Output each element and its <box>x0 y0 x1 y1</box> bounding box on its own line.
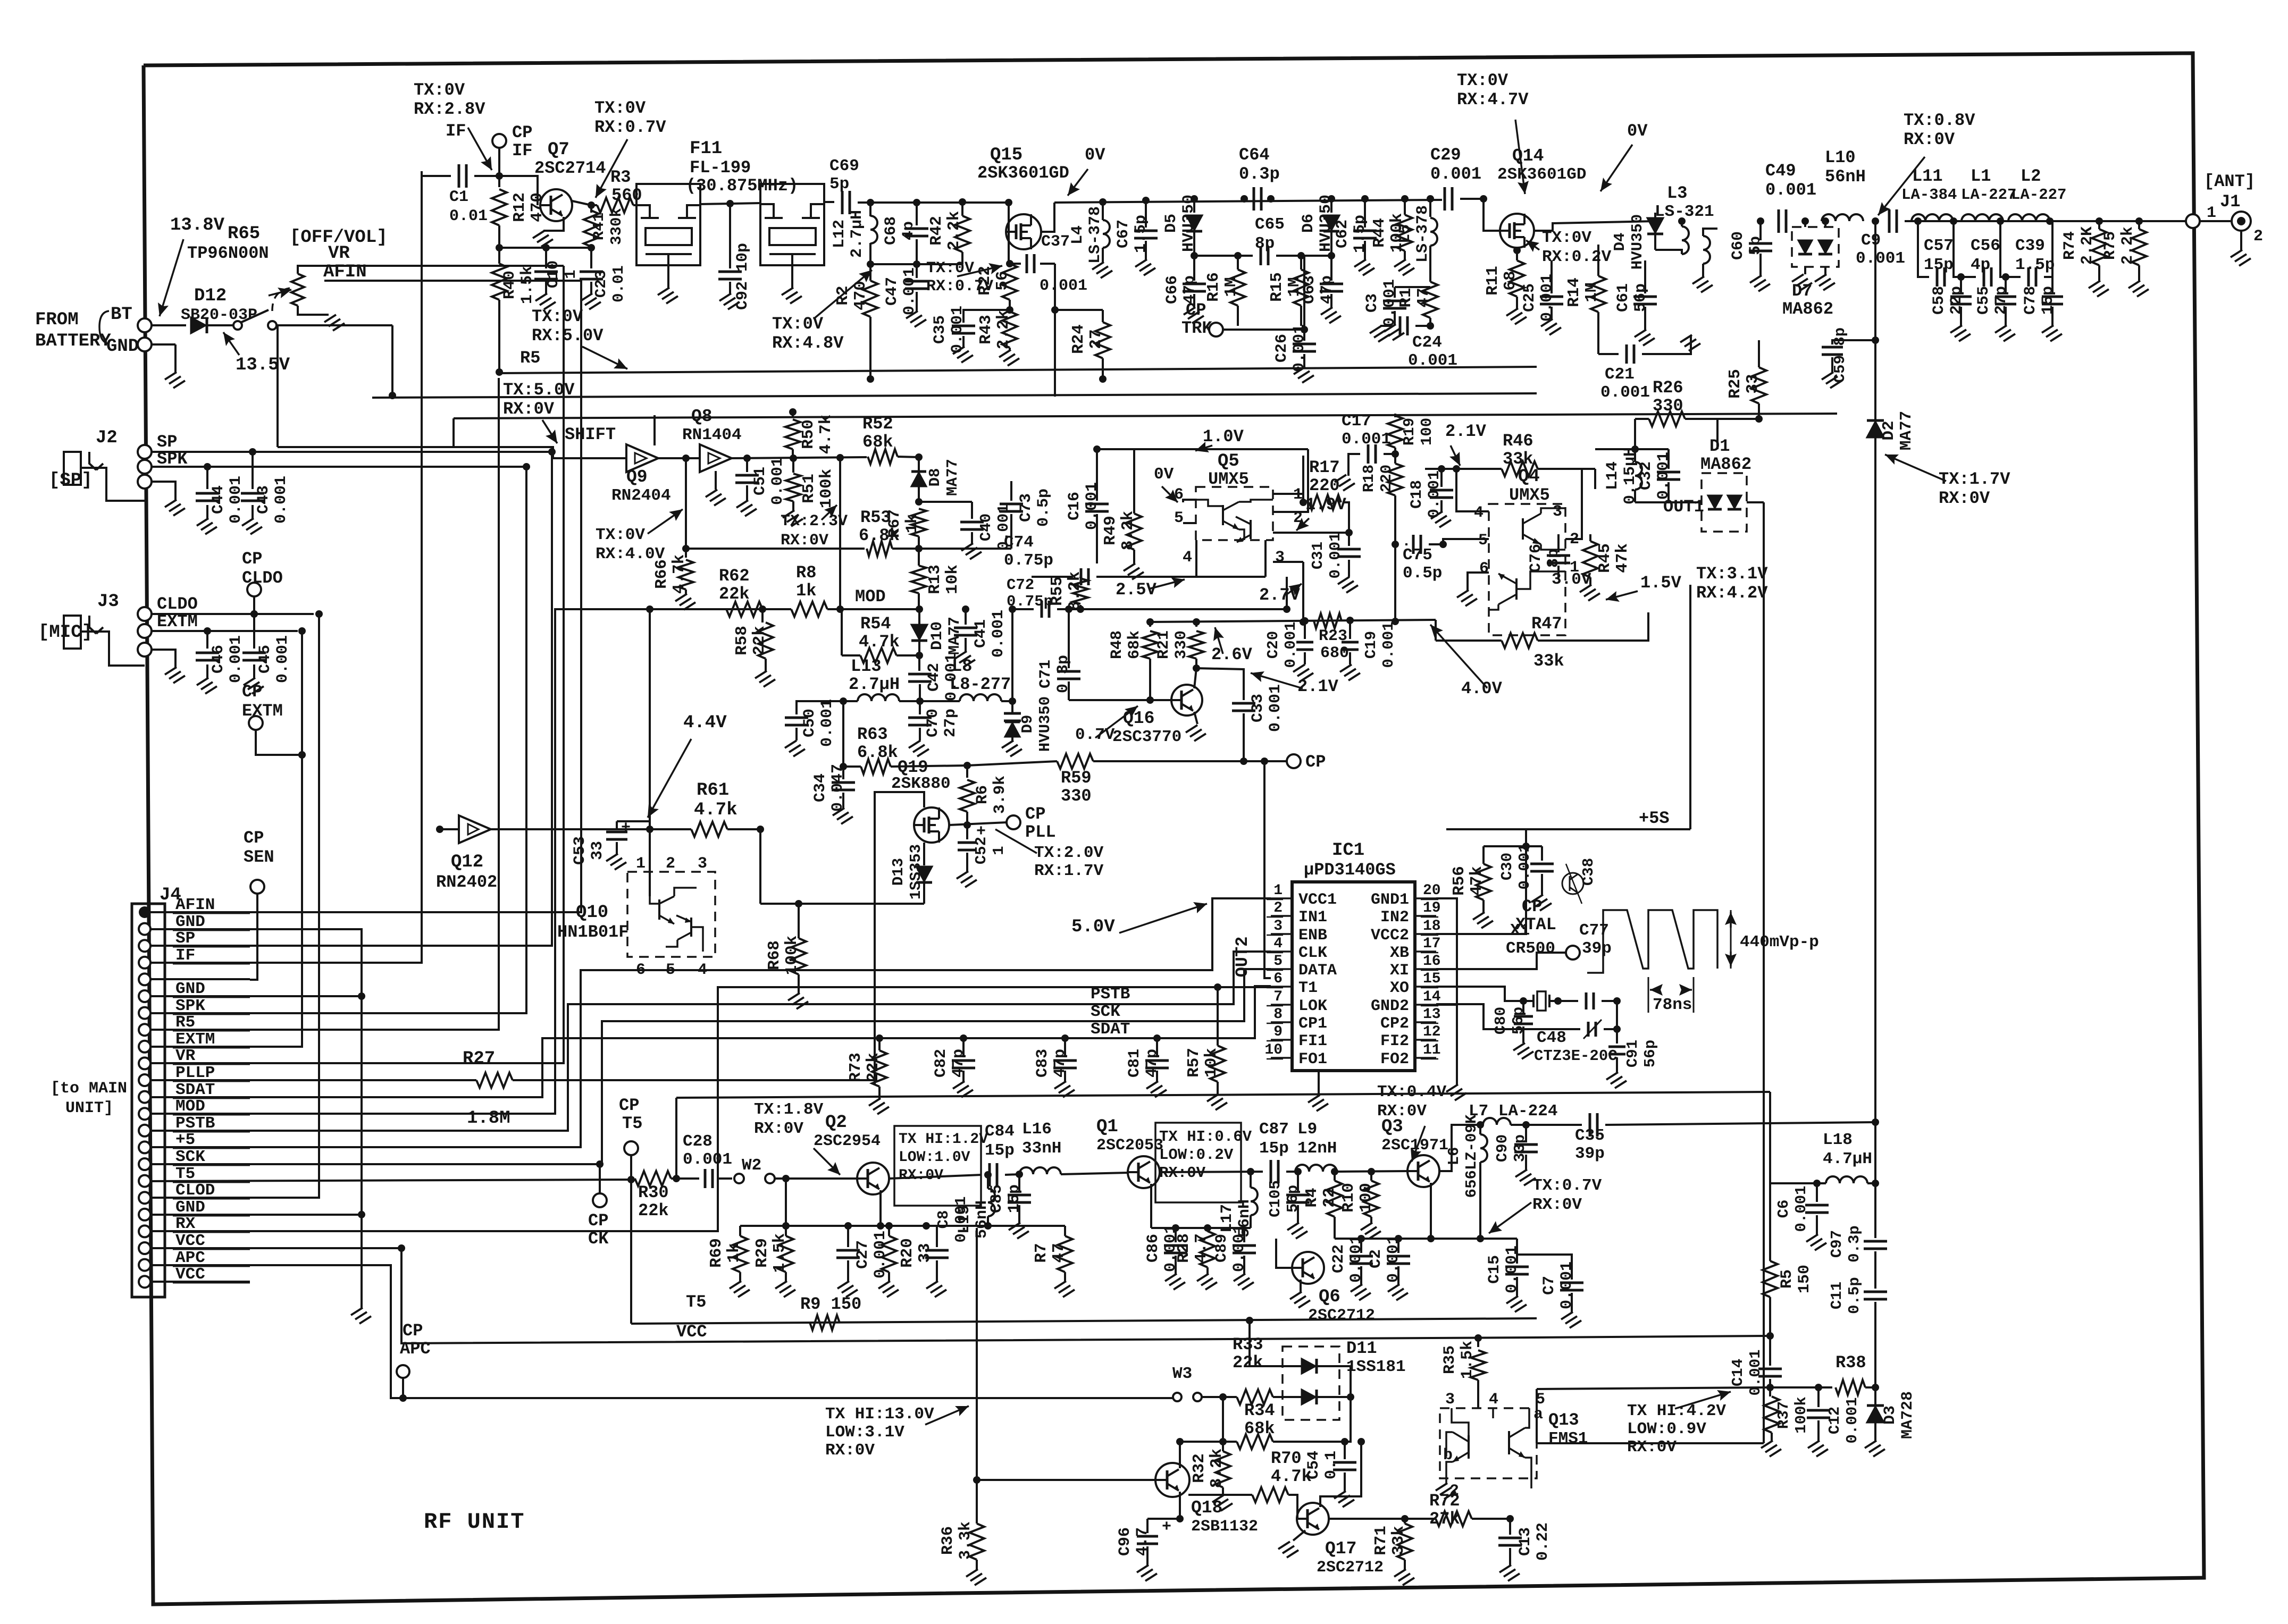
J4 pin GND <box>139 923 150 935</box>
capacitor C89 0.001 <box>1243 1228 1245 1242</box>
wire down from C9 node <box>1874 221 1876 429</box>
svg-text:W2: W2 <box>742 1156 761 1175</box>
wire q13 right <box>1537 1442 1764 1444</box>
svg-text:C40: C40 <box>977 514 995 541</box>
capacitor C9 0.001 <box>1872 217 1879 225</box>
svg-text:2.2k: 2.2k <box>994 310 1013 349</box>
svg-text:4: 4 <box>1474 504 1484 522</box>
svg-text:Q12: Q12 <box>451 852 483 872</box>
svg-text:Q4: Q4 <box>1518 467 1540 487</box>
svg-text:R55: R55 <box>1048 576 1067 606</box>
svg-text:R13: R13 <box>926 565 944 594</box>
svg-text:RX:0V: RX:0V <box>754 1120 803 1138</box>
IC1 pin 13 CP2 <box>1415 1021 1436 1023</box>
svg-text:L2: L2 <box>2021 166 2041 186</box>
svg-text:J1: J1 <box>2220 192 2240 212</box>
resistor R25 33 <box>1758 340 1760 367</box>
capacitor C31 0.001 <box>1337 548 1361 551</box>
svg-text:Q13: Q13 <box>1548 1410 1579 1430</box>
svg-text:D5: D5 <box>1162 214 1180 233</box>
svg-text:PSTB: PSTB <box>1091 985 1130 1004</box>
svg-text:FO1: FO1 <box>1298 1050 1327 1068</box>
svg-text:0.001: 0.001 <box>1380 621 1397 668</box>
svg-text:C86: C86 <box>1144 1234 1162 1263</box>
svg-text:W3: W3 <box>1172 1365 1192 1383</box>
svg-text:2: 2 <box>2253 228 2263 246</box>
svg-text:RN2402: RN2402 <box>436 872 497 892</box>
svg-text:22p: 22p <box>1948 286 1966 315</box>
svg-text:56p: 56p <box>1632 283 1650 312</box>
svg-text:330: 330 <box>1172 630 1191 659</box>
svg-text:1: 1 <box>562 270 580 279</box>
svg-text:CP: CP <box>1186 300 1206 320</box>
svg-text:68: 68 <box>1501 271 1520 290</box>
capacitor C82 47p <box>960 1034 967 1042</box>
capacitor C20 0.001 <box>1304 621 1306 639</box>
svg-text:C81: C81 <box>1126 1049 1144 1078</box>
svg-text:C24: C24 <box>1412 333 1442 352</box>
svg-text:2SK880: 2SK880 <box>891 775 951 793</box>
svg-text:FO2: FO2 <box>1380 1050 1409 1068</box>
IC1 pin 11 FO2 <box>1415 1057 1436 1059</box>
svg-text:100k: 100k <box>783 936 801 975</box>
capacitor C2 0.001 <box>1397 1239 1399 1253</box>
svg-text:8.2k: 8.2k <box>1066 571 1084 611</box>
svg-text:R61: R61 <box>697 780 729 801</box>
svg-text:2SC2954: 2SC2954 <box>814 1132 881 1150</box>
ground at GND terminal <box>152 343 175 346</box>
svg-text:LS-321: LS-321 <box>1655 203 1714 221</box>
wire row to filter2 <box>633 204 636 206</box>
svg-text:C60: C60 <box>1729 231 1747 260</box>
svg-text:C53: C53 <box>571 836 589 865</box>
svg-text:MA728: MA728 <box>1899 1391 1917 1439</box>
capacitor C51 0.001 <box>746 458 748 472</box>
svg-text:2SC2712: 2SC2712 <box>1317 1559 1384 1577</box>
svg-text:R5: R5 <box>520 348 540 368</box>
svg-text:R4: R4 <box>1303 1188 1321 1207</box>
buffer Q12 RN2402 <box>459 815 491 843</box>
capacitor C76 8p <box>1557 534 1560 552</box>
svg-text:R46: R46 <box>1503 431 1533 451</box>
waveform 440mVp-p <box>1587 910 1717 973</box>
svg-text:TX:0V: TX:0V <box>594 98 646 118</box>
transistor pair Q10 HN1B01F <box>627 872 715 957</box>
IC1 ground stubs <box>1436 898 1457 1084</box>
svg-text:T5: T5 <box>622 1114 642 1133</box>
svg-text:C30: C30 <box>1498 853 1516 880</box>
svg-text:RX:4.7V: RX:4.7V <box>1457 90 1529 110</box>
wire D9 riser <box>1011 609 1013 701</box>
svg-text:0.001: 0.001 <box>227 635 245 683</box>
svg-text:XO: XO <box>1390 979 1409 997</box>
IC1 pin 16 XI <box>1415 968 1436 970</box>
IC1 pin 7 LOK <box>1271 1004 1292 1006</box>
svg-text:RX:0V: RX:0V <box>503 399 555 419</box>
svg-text:C17: C17 <box>1342 412 1371 431</box>
diode D8 MA77 <box>911 473 926 486</box>
wire AFIN riser <box>150 281 581 912</box>
IC1 pin 14 GND2 <box>1415 1004 1436 1006</box>
svg-text:OUT2: OUT2 <box>1233 937 1252 978</box>
svg-text:CP: CP <box>403 1321 423 1341</box>
svg-text:6: 6 <box>636 961 646 979</box>
resistor R28 4.7 <box>1206 1228 1209 1231</box>
svg-text:C71: C71 <box>1037 660 1055 688</box>
label 0.7V <box>1095 706 1138 738</box>
svg-text:R51: R51 <box>800 474 818 503</box>
Q4 transistor a <box>1522 518 1524 540</box>
transistor C38 mark <box>1562 873 1583 894</box>
capacitor C16 0.001 <box>1096 449 1098 501</box>
capacitor C43 0.001 <box>249 448 256 456</box>
svg-text:R71: R71 <box>1372 1526 1390 1555</box>
svg-text:Q16: Q16 <box>1123 709 1154 728</box>
capacitor C97 0.3p <box>1874 1183 1876 1238</box>
svg-text:CP1: CP1 <box>1298 1015 1327 1033</box>
svg-text:33p: 33p <box>1511 1134 1529 1162</box>
svg-text:22k: 22k <box>638 1201 669 1221</box>
wire EXTM <box>152 630 298 632</box>
resistor R40 1.5k <box>498 248 500 264</box>
svg-text:0.001: 0.001 <box>1503 1246 1521 1293</box>
inductor L4 LS-378a <box>1099 198 1107 206</box>
svg-text:CP: CP <box>1305 752 1326 772</box>
svg-text:0.3p: 0.3p <box>1054 655 1072 693</box>
capacitor C90 33p <box>1525 1125 1527 1141</box>
resistor R57 10k <box>1214 983 1221 991</box>
resistor R74 2.2K <box>2096 217 2103 225</box>
svg-text:0.1: 0.1 <box>1322 1451 1340 1479</box>
svg-text:2.2k: 2.2k <box>945 211 963 250</box>
terminal CP XTAL wire <box>1436 953 1566 969</box>
svg-text:R68: R68 <box>765 940 784 970</box>
wire MOD riser <box>150 609 762 1114</box>
diode block D7 MA862 <box>1792 227 1839 267</box>
svg-text:L14: L14 <box>1604 461 1622 490</box>
wire CLDO <box>152 613 314 615</box>
svg-text:1.8M: 1.8M <box>467 1108 510 1129</box>
J4 pin APC <box>139 1259 150 1271</box>
svg-text:IC1: IC1 <box>1332 840 1364 861</box>
svg-text:R74: R74 <box>2061 231 2079 260</box>
svg-text:0.001: 0.001 <box>1538 274 1556 322</box>
svg-text:33nH: 33nH <box>1022 1139 1061 1158</box>
wire rail 2610 <box>1537 1387 1770 1389</box>
capacitor C21 0.001 <box>1598 353 1619 355</box>
svg-text:68k: 68k <box>862 432 893 452</box>
J4 pin MOD <box>139 1108 150 1120</box>
svg-text:R3: R3 <box>610 167 631 187</box>
capacitor C67 1.5p <box>1142 197 1150 204</box>
svg-text:1k: 1k <box>796 581 816 601</box>
svg-text:Q15: Q15 <box>990 145 1023 165</box>
svg-text:R19: R19 <box>1401 418 1418 445</box>
svg-text:6: 6 <box>1479 560 1489 578</box>
svg-text:C96: C96 <box>1116 1527 1134 1556</box>
svg-text:R40: R40 <box>501 271 519 299</box>
svg-text:C25: C25 <box>1521 283 1539 312</box>
svg-text:D13: D13 <box>890 858 907 886</box>
resistor R48 68k <box>1149 622 1151 627</box>
wire mod branch <box>841 609 843 655</box>
svg-text:0.001: 0.001 <box>1856 249 1905 268</box>
svg-text:C69: C69 <box>829 157 859 175</box>
svg-text:L8: L8 <box>952 657 972 676</box>
svg-text:R73: R73 <box>847 1053 865 1082</box>
sub rail q1 <box>1151 1227 1251 1229</box>
svg-text:2: 2 <box>1449 1482 1459 1500</box>
svg-text:R37: R37 <box>1775 1401 1792 1429</box>
svg-text:RX:0V: RX:0V <box>1627 1438 1677 1457</box>
svg-text:(30.875MHz): (30.875MHz) <box>686 176 798 196</box>
svg-text:656LZ-09K: 656LZ-09K <box>1463 1114 1480 1198</box>
svg-text:C85: C85 <box>988 1184 1006 1213</box>
svg-text:10k: 10k <box>1202 1048 1221 1078</box>
wire mixer out to Q4 <box>1302 562 1304 622</box>
svg-text:470: 470 <box>528 192 547 222</box>
svg-text:Q17: Q17 <box>1325 1539 1356 1559</box>
svg-text:0V: 0V <box>1627 121 1648 141</box>
svg-text:0.01: 0.01 <box>449 207 488 225</box>
capacitor C63 47p <box>1330 256 1332 281</box>
sub rail <box>870 263 962 265</box>
svg-text:4: 4 <box>1489 1391 1498 1409</box>
svg-text:2.2K: 2.2K <box>2079 226 2097 265</box>
varactor D9 HVU350 <box>1011 701 1013 713</box>
wire VR riser <box>150 266 564 1063</box>
svg-text:C21: C21 <box>1605 365 1635 384</box>
svg-text:Q7: Q7 <box>548 140 569 160</box>
resistor R13 10k <box>911 566 926 593</box>
wire VCC2 <box>1436 846 1526 934</box>
svg-text:D12: D12 <box>194 286 227 306</box>
capacitor C35 0.001 <box>963 310 1010 323</box>
svg-text:R54: R54 <box>860 614 891 634</box>
wire Q19 drain <box>875 792 924 1084</box>
svg-text:GND: GND <box>106 336 139 357</box>
svg-text:C19: C19 <box>1362 631 1380 659</box>
svg-text:R33: R33 <box>1233 1335 1263 1354</box>
svg-text:TX:0V: TX:0V <box>1542 229 1591 247</box>
svg-text:R42: R42 <box>927 216 946 246</box>
svg-text:0.01: 0.01 <box>610 265 627 302</box>
J4 pin +5 <box>139 1141 150 1153</box>
svg-text:0.15μH: 0.15μH <box>1621 447 1639 504</box>
svg-text:SEN: SEN <box>244 847 274 867</box>
svg-text:15p: 15p <box>1924 256 1954 274</box>
svg-text:1.0V: 1.0V <box>1203 427 1244 447</box>
IC1 pin 10 FO1 <box>1271 1057 1292 1059</box>
resistor R4 22 <box>1331 1168 1338 1175</box>
svg-text:TP96N00N: TP96N00N <box>187 243 269 263</box>
svg-text:J2: J2 <box>96 428 118 448</box>
svg-text:Q1: Q1 <box>1096 1117 1118 1137</box>
wire VCC riser <box>150 1247 401 1249</box>
svg-text:3.3k: 3.3k <box>957 1521 975 1560</box>
svg-text:47p: 47p <box>1181 275 1199 304</box>
svg-text:C66: C66 <box>1163 275 1181 304</box>
ground at J3 <box>152 650 175 667</box>
svg-text:0.001: 0.001 <box>952 1196 970 1242</box>
svg-text:CP: CP <box>242 682 262 702</box>
J4 pin IF <box>139 957 150 969</box>
IC1 pin 8 CP1 <box>1271 1021 1292 1023</box>
svg-text:L12: L12 <box>831 220 849 248</box>
mid box top <box>454 414 1837 418</box>
bias rail <box>499 247 591 249</box>
diode D13 1SS353 <box>916 866 932 881</box>
svg-text:R43: R43 <box>977 315 995 344</box>
svg-text:14: 14 <box>1423 989 1441 1005</box>
gnd Q8 <box>715 471 717 490</box>
svg-text:C61: C61 <box>1614 283 1632 312</box>
svg-text:HVU350: HVU350 <box>1629 214 1646 270</box>
J4 pin SDAT <box>139 1091 150 1103</box>
svg-text:56p: 56p <box>1284 1185 1302 1213</box>
svg-text:HVU350: HVU350 <box>1180 195 1198 252</box>
svg-text:R34: R34 <box>1244 1401 1275 1420</box>
svg-text:+5S: +5S <box>1639 809 1670 828</box>
svg-text:C82: C82 <box>932 1049 950 1078</box>
jack symbol MIC <box>64 616 81 649</box>
svg-text:Q6: Q6 <box>1319 1287 1340 1307</box>
wire T5 riser <box>150 1180 631 1181</box>
svg-text:11: 11 <box>1423 1042 1441 1058</box>
svg-text:0.001: 0.001 <box>1843 1397 1861 1443</box>
svg-text:47: 47 <box>1050 1243 1068 1263</box>
stub last VCC <box>150 1281 250 1283</box>
svg-text:47k: 47k <box>1613 543 1632 573</box>
svg-text:HN1B01F: HN1B01F <box>557 922 628 942</box>
svg-text:R7: R7 <box>1032 1243 1051 1263</box>
capacitor C12 0.001 <box>1815 1384 1822 1391</box>
J4 pin 5 <box>139 973 150 985</box>
svg-text:CP: CP <box>619 1096 639 1115</box>
svg-text:22k: 22k <box>750 626 769 655</box>
rail 1170 <box>1150 620 1436 622</box>
svg-text:1: 1 <box>2207 204 2216 222</box>
svg-text:27: 27 <box>1087 329 1105 349</box>
capacitor C91 56p <box>1616 1029 1618 1044</box>
svg-text:FL-199: FL-199 <box>690 158 751 178</box>
svg-text:C84: C84 <box>985 1122 1015 1141</box>
mixer bottom rail <box>1196 540 1265 577</box>
svg-text:27p: 27p <box>942 709 960 737</box>
resistor R71 33k <box>1404 1519 1406 1524</box>
svg-text:TX:0V: TX:0V <box>414 80 465 100</box>
svg-text:0.75p: 0.75p <box>1007 593 1053 610</box>
resistor R14 1M <box>1597 245 1599 276</box>
svg-text:LS-378: LS-378 <box>1086 206 1104 264</box>
capacitor C105 56p <box>1297 1172 1299 1192</box>
resistor R10 100 <box>1368 1168 1375 1175</box>
wire EXTM riser <box>150 631 302 1047</box>
svg-text:TX:1.7V: TX:1.7V <box>1939 469 2010 489</box>
svg-text:C68: C68 <box>882 216 900 245</box>
resistor R18 220 <box>1388 464 1403 495</box>
wire gate node <box>949 822 1007 825</box>
svg-text:C23: C23 <box>592 270 610 298</box>
diode D2 MA77 <box>1867 422 1884 437</box>
capacitor C86 0.001 <box>1175 1228 1177 1242</box>
capacitor C50 0.001 <box>797 701 843 714</box>
svg-text:5: 5 <box>1174 509 1184 527</box>
J4 pin SPK <box>139 1007 150 1019</box>
svg-text:R66: R66 <box>652 559 671 589</box>
svg-text:IN2: IN2 <box>1380 908 1409 927</box>
svg-text:C67: C67 <box>1114 220 1133 248</box>
svg-text:5p: 5p <box>1747 236 1765 255</box>
wire left rails join <box>1536 1389 1538 1443</box>
svg-text:R18: R18 <box>1360 465 1378 492</box>
svg-text:C33: C33 <box>1249 694 1267 722</box>
J4 pin VR <box>139 1057 150 1069</box>
J4 pin VCC <box>139 1276 150 1288</box>
capacitor C71 0.3p <box>1068 609 1070 668</box>
resistor R7 47 <box>1064 1226 1066 1236</box>
wire IF riser <box>150 171 422 963</box>
svg-text:RX:4.8V: RX:4.8V <box>772 333 844 353</box>
wire SPK riser <box>150 467 526 1013</box>
svg-text:TX:0.4V: TX:0.4V <box>1377 1083 1447 1101</box>
wire vco feed 2054 <box>676 1092 1770 1098</box>
capacitor C59 8p <box>1832 340 1875 344</box>
resistor R56 47k <box>1482 846 1485 864</box>
svg-text:C89: C89 <box>1213 1234 1231 1263</box>
svg-text:2SB1132: 2SB1132 <box>1191 1518 1258 1536</box>
svg-text:RX:0.7V: RX:0.7V <box>594 117 666 137</box>
svg-text:4.7k: 4.7k <box>670 554 689 594</box>
svg-text:47p: 47p <box>1318 275 1336 304</box>
resistor R36 3.3k <box>969 1524 984 1560</box>
svg-text:2SC2714: 2SC2714 <box>534 158 606 178</box>
row Q15 to Q14 <box>870 201 1009 204</box>
svg-text:CP: CP <box>244 828 264 848</box>
svg-text:0.001: 0.001 <box>274 635 292 683</box>
inductor L6 656LZ-09K <box>1480 1134 1487 1162</box>
resistor R1 47 <box>1429 268 1431 282</box>
resistor R35 1.5k <box>1477 1338 1479 1347</box>
svg-text:22k: 22k <box>719 584 750 604</box>
svg-text:R63: R63 <box>857 725 888 744</box>
svg-text:0.75p: 0.75p <box>1004 551 1053 570</box>
svg-text:0.001: 0.001 <box>1347 1235 1365 1283</box>
svg-text:VR: VR <box>328 243 350 264</box>
svg-text:R57: R57 <box>1185 1048 1203 1078</box>
svg-text:C45: C45 <box>256 645 274 674</box>
svg-text:LS-378: LS-378 <box>1414 205 1432 263</box>
svg-text:CP: CP <box>512 123 532 142</box>
svg-text:R14: R14 <box>1565 277 1583 307</box>
wire pin4 <box>1456 469 1489 511</box>
svg-text:C15: C15 <box>1486 1255 1504 1284</box>
svg-text:RN1404: RN1404 <box>682 426 742 444</box>
svg-text:R36: R36 <box>939 1526 957 1555</box>
svg-text:D10: D10 <box>928 621 946 650</box>
svg-text:39p: 39p <box>1575 1145 1605 1163</box>
svg-text:C46: C46 <box>209 645 228 674</box>
resistor R45 47k <box>1589 534 1591 541</box>
svg-text:RX:5.0V: RX:5.0V <box>532 326 604 346</box>
inductor L17 56nH <box>1247 1168 1254 1175</box>
svg-text:C29: C29 <box>1430 145 1461 165</box>
svg-text:R50: R50 <box>799 419 818 449</box>
wire GND rail <box>150 929 362 1308</box>
wire R5 riser <box>150 378 499 1030</box>
svg-text:R5: R5 <box>1778 1269 1796 1289</box>
svg-text:BT: BT <box>111 305 132 325</box>
